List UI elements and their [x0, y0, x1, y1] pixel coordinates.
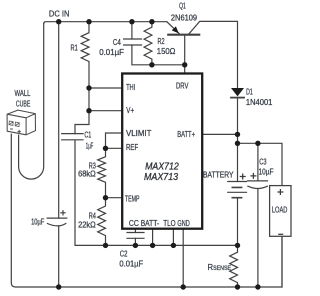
wire Q1 emitter from DC rail — [167, 22, 180, 35]
wire TLO pin drop — [172, 228, 174, 245]
svg-text:68kΩ: 68kΩ — [78, 168, 96, 178]
svg-text:2N6109: 2N6109 — [171, 13, 198, 23]
node RSENSE bottom — [235, 284, 240, 289]
wire C4 bottom lead across to R2 bottom and Q1 base node — [132, 45, 185, 65]
svg-text:MAX712: MAX712 — [145, 161, 179, 172]
capacitor C3 curved plate — [248, 186, 267, 188]
resistor R3 — [98, 148, 106, 197]
node TLO rail — [171, 243, 176, 248]
diode D1 triangle — [231, 88, 244, 96]
wire wall-cube plus lead with U loop up to DC IN — [19, 24, 44, 179]
svg-text:10µF: 10µF — [259, 167, 274, 177]
wire THI pin — [89, 87, 121, 89]
svg-text:TLO: TLO — [163, 218, 176, 228]
wire battery bottom lead — [237, 198, 239, 246]
svg-text:WALL: WALL — [15, 88, 31, 98]
node R4 bottom — [103, 243, 108, 248]
wire DRV pin drop into IC — [184, 65, 186, 74]
node DC IN junction — [56, 19, 61, 24]
svg-text:1N4001: 1N4001 — [246, 97, 273, 107]
svg-text:SENSE: SENSE — [213, 265, 231, 272]
capacitor C2 plates — [127, 233, 144, 239]
svg-text:TEMP: TEMP — [125, 193, 140, 203]
svg-text:150Ω: 150Ω — [157, 46, 176, 56]
transistor Q1 base bar — [168, 34, 199, 36]
svg-text:C4: C4 — [113, 37, 121, 47]
svg-text:CC: CC — [129, 218, 139, 228]
svg-text:10µF: 10µF — [31, 216, 44, 226]
transistor Q1 emitter arrow — [172, 26, 179, 33]
node R2 top — [149, 19, 154, 24]
wire CC pin to C2 — [134, 228, 136, 233]
svg-text:D1: D1 — [246, 87, 253, 97]
node REF — [103, 146, 108, 151]
svg-text:0.01µF: 0.01µF — [99, 47, 124, 57]
wire 10uF input cap top lead — [58, 22, 60, 218]
plus sign C3 — [250, 173, 256, 179]
wall cube plug slot symbols — [9, 121, 19, 127]
svg-text:BATT-: BATT- — [141, 218, 160, 228]
resistor RSENSE — [230, 245, 238, 287]
node BATT+ — [235, 132, 240, 137]
plus sign LOAD — [277, 189, 283, 195]
resistor R4 — [98, 198, 106, 246]
load box — [270, 186, 291, 237]
svg-text:CUBE: CUBE — [16, 99, 31, 109]
wire C4 top lead — [131, 22, 133, 39]
node 10uF ground — [56, 284, 61, 289]
capacitor C3 plate — [248, 180, 268, 182]
plus sign battery — [240, 174, 246, 180]
svg-text:DC IN: DC IN — [49, 8, 70, 18]
svg-text:22kΩ: 22kΩ — [78, 220, 96, 230]
battery short plates — [232, 187, 241, 197]
wall cube plus sign — [18, 130, 21, 133]
wire V+ pin — [89, 110, 121, 112]
svg-text:GND: GND — [177, 218, 189, 228]
IC U1 MAX712/MAX713 body — [122, 74, 202, 229]
svg-text:MAX713: MAX713 — [144, 172, 179, 183]
svg-text:VLIMIT: VLIMIT — [126, 128, 151, 138]
wire TEMP pin — [106, 197, 122, 199]
plus sign 10uF input cap — [60, 210, 65, 215]
wire 10uF input cap bottom lead — [58, 226, 60, 287]
node BATT- rail — [150, 243, 155, 248]
wire Q1 base drop to DRV node — [184, 35, 186, 65]
diode D1 cathode bar — [231, 97, 244, 99]
svg-text:LOAD: LOAD — [272, 205, 288, 215]
wire top DC rail — [44, 22, 167, 24]
wire GND pin drop to bottom rail — [182, 228, 184, 287]
wire BATT+ pin — [202, 133, 237, 135]
wire C3 top lead — [257, 143, 259, 181]
wall cube body — [7, 110, 35, 135]
svg-text:BATT+: BATT+ — [177, 129, 195, 139]
resistor R2 — [144, 22, 152, 65]
wire LOAD bottom lead — [281, 236, 283, 287]
minus sign LOAD — [278, 233, 283, 235]
svg-text:C1: C1 — [84, 130, 91, 140]
node DRV base — [182, 62, 187, 67]
node C3 bottom — [255, 284, 260, 289]
svg-text:BATTERY: BATTERY — [203, 169, 234, 179]
wire BATT- pin drop — [152, 228, 154, 245]
svg-text:V+: V+ — [126, 105, 134, 115]
node THI — [86, 85, 91, 90]
node RSENSE top — [235, 243, 240, 248]
capacitor C4 plates — [124, 39, 142, 45]
svg-text:0.01µF: 0.01µF — [119, 258, 143, 268]
svg-text:R2: R2 — [158, 36, 165, 46]
svg-text:1µF: 1µF — [86, 141, 94, 151]
node TEMP — [103, 195, 108, 200]
capacitor C1 plates — [62, 134, 83, 140]
wire Q1 collector to D1 column — [188, 21, 237, 88]
svg-text:REF: REF — [126, 142, 138, 152]
wire C3 bottom lead to ground rail — [257, 189, 259, 287]
battery long plates — [228, 182, 247, 193]
wire wall-cube minus lead down left side into bottom ground rail — [11, 134, 282, 287]
svg-text:R1: R1 — [71, 42, 79, 52]
wire battery node to C3 and LOAD plus — [238, 143, 283, 185]
capacitor 10uF input plate — [47, 217, 67, 219]
node V+ — [86, 108, 91, 113]
wire VLIMIT pin tied to REF — [106, 133, 122, 148]
svg-text:DRV: DRV — [176, 80, 189, 90]
node R2 bottom — [149, 62, 154, 67]
node GND rail — [181, 284, 186, 289]
node R1 top — [86, 19, 91, 24]
resistor R1 — [75, 22, 89, 134]
node C2 bottom — [133, 243, 138, 248]
capacitor 10uF input curved plate — [47, 224, 65, 226]
node battery top — [235, 141, 240, 146]
wire D1 cathode down to battery column — [237, 98, 239, 182]
svg-text:C3: C3 — [259, 156, 267, 166]
wall cube minus sign — [10, 128, 13, 130]
node C3 top — [255, 141, 260, 146]
svg-text:THI: THI — [126, 82, 135, 92]
wire C2 bottom lead — [134, 238, 136, 245]
svg-text:C2: C2 — [120, 248, 128, 258]
wire REF pin — [106, 147, 122, 149]
wire C1 bottom lead down into sense rail — [75, 140, 238, 245]
svg-text:Q1: Q1 — [179, 1, 186, 11]
node C4 top — [129, 19, 134, 24]
